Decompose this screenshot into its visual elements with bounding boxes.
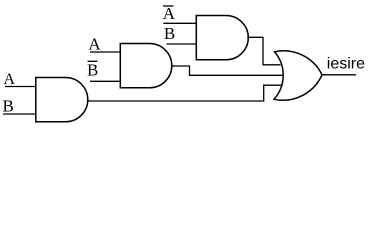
svg-text:A: A (88, 35, 101, 54)
wire input A to U1 (5, 86, 36, 88)
svg-text:B: B (3, 97, 14, 116)
wire input B-bar to U2 (90, 80, 121, 82)
wire input A to U2 (90, 51, 121, 53)
or-gate U4 (3-input output OR) (274, 51, 322, 100)
and-gate U3 (top, inputs A-bar and B) (196, 16, 248, 60)
wire U3 output with jog down to OR input 1 (247, 37, 280, 65)
wire input B to U3 (167, 43, 197, 45)
svg-text:A: A (163, 4, 176, 23)
svg-text:iesire: iesire (327, 56, 365, 73)
overline of A-bar label U3 (163, 5, 174, 7)
wire U1 output horizontal run (88, 85, 281, 101)
overline of B-bar label U2 (88, 60, 98, 62)
svg-text:B: B (164, 24, 175, 43)
and-gate U2 (middle, inputs A and B-bar) (120, 44, 172, 88)
and-gate U1 (bottom left, inputs A and B) (36, 78, 88, 122)
svg-text:A: A (4, 71, 16, 88)
wire U4 output to iesire (322, 74, 356, 76)
wire U2 output with jog down to OR input 2 (172, 66, 283, 75)
svg-text:B: B (87, 61, 98, 80)
wire input B to U1 (3, 113, 36, 115)
wire input A-bar to U3 (164, 22, 197, 24)
